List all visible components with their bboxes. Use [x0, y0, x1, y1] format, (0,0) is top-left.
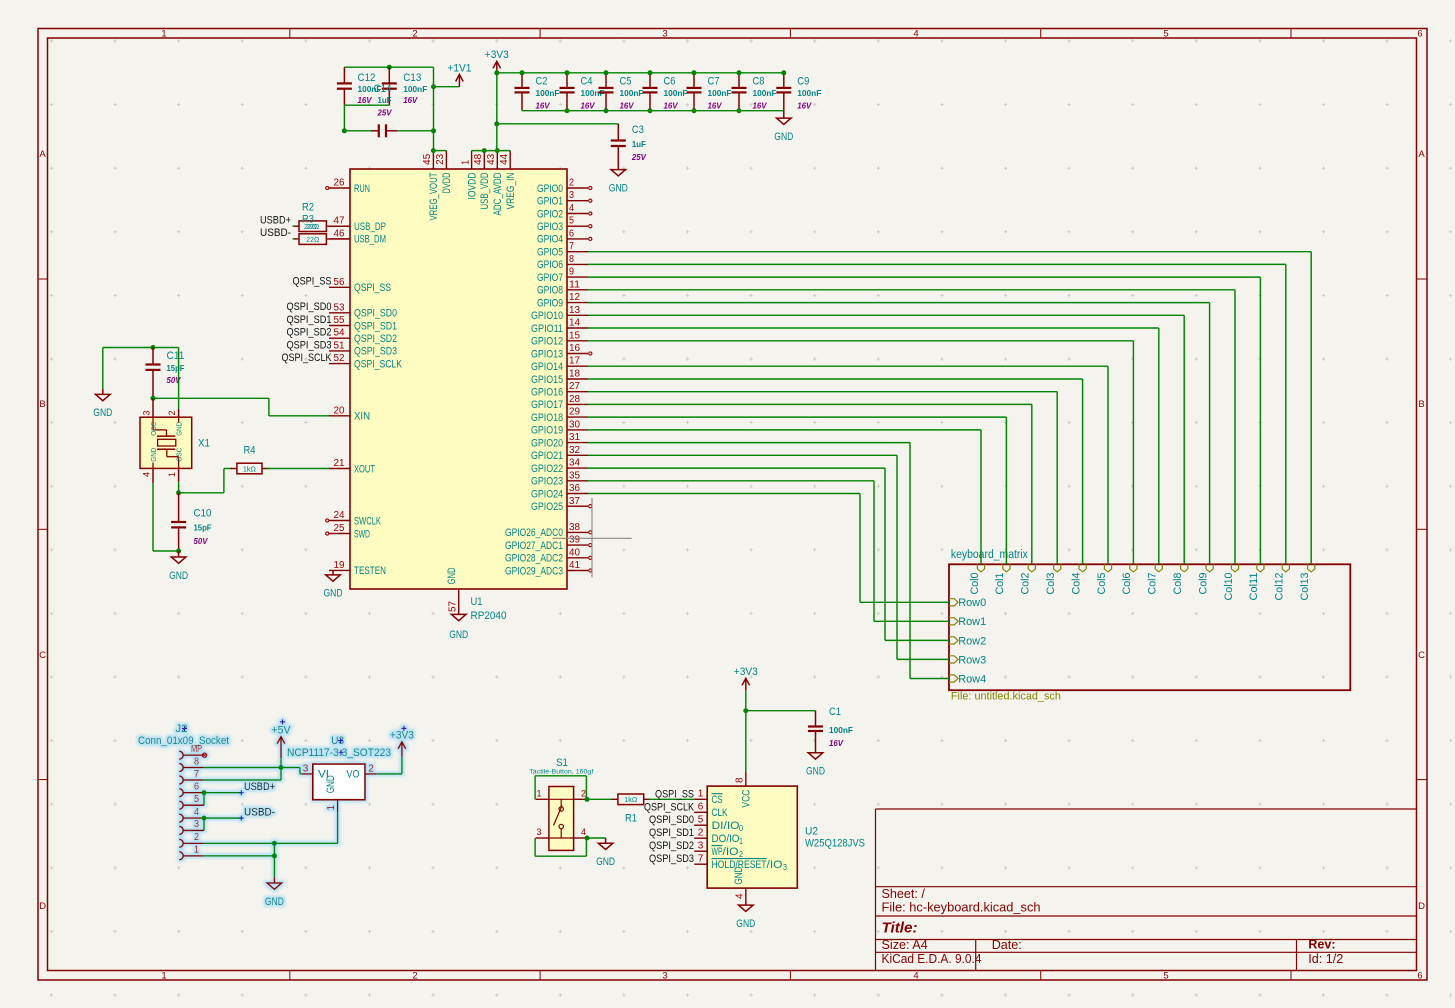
svg-text:GPIO21: GPIO21 — [531, 450, 563, 462]
svg-text:28: 28 — [569, 394, 580, 405]
svg-text:50V: 50V — [167, 375, 182, 385]
svg-text:16: 16 — [569, 343, 580, 354]
svg-text:GPIO24: GPIO24 — [531, 488, 563, 500]
svg-text:1: 1 — [167, 472, 177, 477]
svg-text:100nF: 100nF — [403, 84, 427, 94]
svg-text:Row1: Row1 — [958, 616, 986, 628]
svg-text:GND: GND — [806, 766, 825, 778]
svg-text:USBD+: USBD+ — [260, 215, 291, 227]
svg-text:3: 3 — [698, 840, 704, 851]
svg-text:C3: C3 — [632, 124, 644, 136]
svg-text:GPIO15: GPIO15 — [531, 374, 563, 386]
svg-text:USB_DM: USB_DM — [354, 234, 386, 246]
svg-text:IOVDD: IOVDD — [466, 173, 478, 200]
svg-text:34: 34 — [569, 458, 580, 469]
svg-text:32: 32 — [569, 445, 580, 456]
svg-text:DO/IO: DO/IO — [712, 833, 740, 845]
svg-text:GPIO5: GPIO5 — [537, 247, 563, 259]
svg-text:3: 3 — [662, 28, 667, 39]
svg-text:7: 7 — [698, 853, 704, 864]
svg-text:57: 57 — [448, 601, 459, 612]
svg-text:GND: GND — [736, 918, 755, 930]
svg-text:41: 41 — [569, 560, 580, 571]
svg-text:5: 5 — [698, 814, 704, 825]
svg-text:D: D — [1418, 901, 1425, 912]
svg-text:100nF: 100nF — [664, 88, 688, 98]
svg-text:GND: GND — [175, 422, 184, 436]
svg-text:GPIO23: GPIO23 — [531, 476, 563, 488]
svg-text:5: 5 — [1163, 28, 1168, 39]
svg-text:USB_DP: USB_DP — [354, 221, 386, 233]
svg-text:Date:: Date: — [992, 938, 1022, 952]
svg-text:QSPI_SD1: QSPI_SD1 — [649, 827, 694, 839]
svg-text:Row4: Row4 — [958, 673, 986, 685]
svg-text:A: A — [1418, 149, 1425, 160]
svg-text:4: 4 — [581, 827, 586, 837]
svg-text:C7: C7 — [708, 76, 720, 88]
svg-text:+1V1: +1V1 — [447, 62, 471, 74]
svg-text:GND: GND — [149, 448, 158, 462]
svg-text:R4: R4 — [244, 445, 256, 457]
svg-text:18: 18 — [569, 369, 580, 380]
svg-text:4: 4 — [735, 893, 746, 899]
svg-text:Tactile-Button, 160gf: Tactile-Button, 160gf — [529, 769, 593, 776]
svg-text:GPIO26_ADC0: GPIO26_ADC0 — [505, 527, 563, 539]
svg-text:USB_VDD: USB_VDD — [479, 172, 491, 209]
svg-text:DI/IO: DI/IO — [712, 820, 740, 832]
svg-text:5: 5 — [569, 216, 574, 227]
svg-text:GPIO27_ADC1: GPIO27_ADC1 — [505, 540, 563, 552]
svg-text:Row3: Row3 — [958, 654, 986, 666]
svg-text:Title:: Title: — [882, 920, 918, 937]
svg-text:Col4: Col4 — [1070, 573, 1082, 595]
svg-text:/IO: /IO — [767, 859, 783, 871]
svg-text:C5: C5 — [620, 76, 632, 88]
svg-text:100nF: 100nF — [753, 88, 777, 98]
svg-text:100nF: 100nF — [708, 88, 732, 98]
svg-text:6: 6 — [1417, 970, 1422, 981]
svg-text:4: 4 — [913, 970, 918, 981]
svg-text:Col9: Col9 — [1197, 573, 1209, 595]
svg-text:KiCad E.D.A. 9.0.4: KiCad E.D.A. 9.0.4 — [882, 952, 982, 966]
svg-text:QSPI_SCLK: QSPI_SCLK — [282, 352, 332, 364]
svg-text:2: 2 — [167, 410, 177, 415]
svg-text:Col2: Col2 — [1020, 573, 1032, 595]
svg-text:100nF: 100nF — [829, 725, 853, 735]
svg-text:16V: 16V — [403, 95, 418, 105]
svg-text:100nF: 100nF — [797, 88, 821, 98]
svg-text:QSPI_SD1: QSPI_SD1 — [354, 320, 397, 332]
svg-text:GPIO16: GPIO16 — [531, 387, 563, 399]
svg-text:51: 51 — [334, 340, 345, 351]
svg-text:B: B — [39, 399, 45, 410]
svg-text:USBD+: USBD+ — [244, 781, 275, 793]
svg-text:WP: WP — [712, 846, 723, 858]
svg-text:QSPI_SD3: QSPI_SD3 — [287, 339, 332, 351]
svg-text:1: 1 — [194, 845, 199, 856]
svg-text:XIN: XIN — [354, 411, 370, 423]
svg-text:ADC_AVDD: ADC_AVDD — [492, 172, 504, 215]
svg-text:GND: GND — [609, 182, 628, 194]
svg-text:GPIO7: GPIO7 — [537, 272, 563, 284]
svg-text:+5V: +5V — [272, 725, 292, 737]
svg-text:QSPI_SD1: QSPI_SD1 — [287, 314, 332, 326]
svg-text:QSPI_SD2: QSPI_SD2 — [649, 840, 694, 852]
svg-text:S1: S1 — [556, 757, 568, 769]
svg-text:5: 5 — [194, 794, 199, 805]
svg-text:3: 3 — [536, 827, 541, 837]
svg-text:7: 7 — [569, 241, 574, 252]
svg-text:QSPI_SCLK: QSPI_SCLK — [354, 358, 402, 370]
svg-text:QSPI_SS: QSPI_SS — [354, 282, 391, 294]
svg-text:Col1: Col1 — [994, 572, 1006, 594]
svg-text:C2: C2 — [536, 76, 548, 88]
svg-text:2: 2 — [412, 970, 417, 981]
svg-text:GPIO13: GPIO13 — [531, 348, 563, 360]
svg-text:GPIO4: GPIO4 — [537, 234, 563, 246]
svg-text:C11: C11 — [167, 350, 185, 362]
svg-text:14: 14 — [569, 318, 580, 329]
svg-text:GPIO6: GPIO6 — [537, 259, 563, 271]
svg-text:GPIO22: GPIO22 — [531, 463, 563, 475]
svg-text:17: 17 — [569, 356, 580, 367]
svg-text:GPIO10: GPIO10 — [531, 310, 563, 322]
svg-text:XOUT: XOUT — [354, 463, 375, 475]
svg-text:46: 46 — [334, 228, 345, 239]
svg-text:C1: C1 — [829, 706, 841, 718]
svg-text:keyboard_matrix: keyboard_matrix — [951, 549, 1028, 561]
svg-text:GPIO1: GPIO1 — [537, 196, 563, 208]
svg-text:54: 54 — [334, 328, 345, 339]
svg-text:3: 3 — [142, 410, 152, 415]
svg-text:GPIO28_ADC2: GPIO28_ADC2 — [505, 553, 563, 565]
svg-text:2: 2 — [569, 178, 574, 189]
svg-text:Col8: Col8 — [1172, 573, 1184, 595]
svg-text:16V: 16V — [708, 101, 723, 111]
svg-text:OSC: OSC — [149, 422, 158, 436]
svg-text:3: 3 — [303, 763, 309, 774]
svg-text:A: A — [39, 149, 46, 160]
svg-text:SWCLK: SWCLK — [354, 515, 381, 527]
svg-text:Col6: Col6 — [1121, 573, 1133, 595]
svg-text:GPIO12: GPIO12 — [531, 336, 563, 348]
svg-text:C10: C10 — [194, 508, 212, 520]
svg-text:27: 27 — [569, 381, 580, 392]
svg-text:GPIO25: GPIO25 — [531, 501, 563, 513]
svg-text:/IO: /IO — [723, 846, 739, 858]
svg-text:GPIO19: GPIO19 — [531, 425, 563, 437]
svg-text:1uF: 1uF — [632, 139, 646, 149]
svg-text:QSPI_SD2: QSPI_SD2 — [354, 333, 397, 345]
svg-text:11: 11 — [569, 279, 580, 290]
svg-text:C13: C13 — [403, 72, 421, 84]
svg-text:1: 1 — [460, 160, 471, 165]
svg-text:3: 3 — [194, 819, 199, 830]
svg-text:3: 3 — [569, 190, 574, 201]
svg-text:4: 4 — [913, 28, 918, 39]
svg-text:8: 8 — [735, 777, 746, 783]
svg-text:R3: R3 — [302, 214, 314, 226]
svg-text:1: 1 — [326, 805, 337, 811]
svg-text:2: 2 — [739, 850, 743, 859]
svg-text:GPIO9: GPIO9 — [537, 297, 563, 309]
svg-text:5: 5 — [1163, 970, 1168, 981]
svg-text:CS: CS — [712, 794, 723, 806]
svg-text:53: 53 — [334, 302, 345, 313]
svg-text:C6: C6 — [664, 76, 676, 88]
svg-text:C: C — [1418, 650, 1425, 661]
svg-text:Size: A4: Size: A4 — [882, 938, 928, 952]
svg-text:U2: U2 — [805, 826, 818, 838]
svg-text:+3V3: +3V3 — [485, 49, 509, 61]
svg-text:1: 1 — [161, 28, 166, 39]
svg-text:4: 4 — [194, 807, 199, 818]
svg-text:100nF: 100nF — [620, 88, 644, 98]
svg-text:USBD-: USBD- — [244, 807, 275, 819]
svg-text:16V: 16V — [536, 101, 551, 111]
svg-text:22Ω: 22Ω — [306, 235, 319, 244]
svg-text:C8: C8 — [753, 76, 765, 88]
svg-text:Row2: Row2 — [958, 635, 986, 647]
svg-text:GPIO20: GPIO20 — [531, 437, 563, 449]
svg-text:16V: 16V — [581, 101, 596, 111]
svg-text:GND: GND — [265, 896, 284, 908]
svg-text:Sheet: /: Sheet: / — [882, 887, 926, 901]
svg-text:47: 47 — [334, 216, 345, 227]
svg-text:GPIO11: GPIO11 — [531, 323, 563, 335]
svg-text:QSPI_SS: QSPI_SS — [655, 788, 694, 800]
svg-text:16V: 16V — [664, 101, 679, 111]
svg-text:OSC: OSC — [175, 448, 184, 462]
svg-text:CLK: CLK — [712, 807, 728, 819]
svg-text:Id: 1/2: Id: 1/2 — [1308, 952, 1343, 966]
svg-text:1: 1 — [161, 970, 166, 981]
svg-text:1uF: 1uF — [378, 95, 392, 105]
svg-text:RUN: RUN — [354, 183, 370, 195]
svg-text:Col13: Col13 — [1299, 573, 1311, 601]
svg-text:GND: GND — [449, 629, 468, 641]
svg-text:QSPI_SD2: QSPI_SD2 — [287, 327, 332, 339]
svg-text:Col10: Col10 — [1223, 573, 1235, 601]
svg-text:4: 4 — [142, 472, 152, 477]
svg-text:GPIO29_ADC3: GPIO29_ADC3 — [505, 565, 563, 577]
svg-text:C9: C9 — [797, 76, 809, 88]
svg-text:QSPI_SD3: QSPI_SD3 — [354, 346, 397, 358]
svg-text:TESTEN: TESTEN — [354, 565, 386, 577]
svg-text:Col5: Col5 — [1096, 573, 1108, 595]
svg-text:Col3: Col3 — [1045, 573, 1057, 595]
svg-text:W25Q128JVS: W25Q128JVS — [805, 838, 865, 850]
svg-text:100nF: 100nF — [536, 88, 560, 98]
svg-text:B: B — [1418, 399, 1424, 410]
svg-text:GND: GND — [324, 588, 343, 600]
svg-text:GND: GND — [774, 131, 793, 143]
svg-text:16V: 16V — [797, 101, 812, 111]
svg-text:26: 26 — [334, 178, 345, 189]
svg-text:QSPI_SS: QSPI_SS — [293, 276, 332, 288]
svg-text:13: 13 — [569, 305, 580, 316]
svg-text:15: 15 — [569, 330, 580, 341]
svg-text:15pF: 15pF — [194, 523, 212, 533]
svg-text:16V: 16V — [620, 101, 635, 111]
svg-text:36: 36 — [569, 483, 580, 494]
svg-text:39: 39 — [569, 535, 580, 546]
svg-text:File: untitled.kicad_sch: File: untitled.kicad_sch — [951, 690, 1061, 702]
svg-text:23: 23 — [435, 153, 446, 164]
svg-text:DVDD: DVDD — [441, 173, 453, 194]
svg-text:15pF: 15pF — [167, 363, 185, 373]
svg-text:6: 6 — [1417, 28, 1422, 39]
svg-text:QSPI_SD0: QSPI_SD0 — [649, 814, 694, 826]
svg-text:Col11: Col11 — [1248, 573, 1260, 601]
svg-text:9: 9 — [569, 267, 574, 278]
svg-text:6: 6 — [698, 802, 704, 813]
svg-text:VREG_VOUT: VREG_VOUT — [428, 172, 440, 220]
svg-text:3: 3 — [662, 970, 667, 981]
svg-text:+3V3: +3V3 — [734, 666, 758, 678]
svg-text:1: 1 — [739, 837, 743, 846]
svg-text:GPIO8: GPIO8 — [537, 285, 563, 297]
svg-text:12: 12 — [569, 292, 580, 303]
svg-text:56: 56 — [334, 277, 345, 288]
svg-text:2: 2 — [698, 827, 704, 838]
svg-text:C: C — [39, 650, 46, 661]
svg-text:6: 6 — [194, 782, 199, 793]
svg-text:GND: GND — [446, 568, 458, 585]
svg-text:C12: C12 — [358, 72, 376, 84]
svg-text:Row0: Row0 — [958, 597, 986, 609]
svg-text:MP: MP — [191, 744, 202, 755]
svg-text:RP2040: RP2040 — [471, 610, 507, 622]
svg-text:QSPI_SCLK: QSPI_SCLK — [644, 801, 694, 813]
svg-text:48: 48 — [473, 153, 484, 164]
svg-text:25V: 25V — [631, 152, 647, 162]
svg-text:QSPI_SD0: QSPI_SD0 — [287, 301, 332, 313]
svg-text:35: 35 — [569, 470, 580, 481]
svg-text:R1: R1 — [625, 813, 637, 825]
svg-text:0: 0 — [739, 824, 743, 833]
svg-text:19: 19 — [334, 560, 345, 571]
svg-text:30: 30 — [569, 419, 580, 430]
svg-text:GND: GND — [733, 867, 745, 885]
svg-text:USBD-: USBD- — [260, 227, 291, 239]
svg-text:2: 2 — [581, 788, 586, 798]
svg-text:C4: C4 — [581, 76, 593, 88]
svg-text:2: 2 — [368, 763, 374, 774]
svg-text:6: 6 — [569, 228, 574, 239]
svg-text:7: 7 — [194, 769, 199, 780]
svg-text:50V: 50V — [194, 536, 209, 546]
svg-text:NCP1117-3.3_SOT223: NCP1117-3.3_SOT223 — [287, 747, 391, 759]
svg-text:52: 52 — [334, 353, 345, 364]
svg-text:File: hc-keyboard.kicad_sch: File: hc-keyboard.kicad_sch — [882, 901, 1041, 915]
svg-text:2: 2 — [194, 832, 199, 843]
svg-text:U1: U1 — [471, 596, 483, 608]
svg-text:21: 21 — [334, 458, 345, 469]
svg-text:16V: 16V — [753, 101, 768, 111]
svg-text:VO: VO — [347, 769, 360, 781]
svg-text:24: 24 — [334, 510, 345, 521]
svg-text:GND: GND — [596, 856, 615, 868]
svg-text:31: 31 — [569, 432, 580, 443]
svg-text:QSPI_SD0: QSPI_SD0 — [354, 308, 397, 320]
svg-text:1: 1 — [698, 789, 704, 800]
svg-text:D: D — [39, 901, 46, 912]
svg-text:16V: 16V — [829, 738, 844, 748]
svg-text:Conn_01x09_Socket: Conn_01x09_Socket — [138, 735, 230, 747]
svg-text:45: 45 — [422, 153, 433, 164]
svg-text:4: 4 — [569, 203, 574, 214]
svg-text:Col7: Col7 — [1147, 573, 1159, 595]
svg-text:QSPI_SD3: QSPI_SD3 — [649, 853, 694, 865]
svg-text:GPIO14: GPIO14 — [531, 361, 563, 373]
svg-text:X1: X1 — [198, 438, 210, 450]
svg-text:43: 43 — [486, 153, 497, 164]
svg-text:1kΩ: 1kΩ — [243, 464, 256, 473]
svg-text:GND: GND — [93, 407, 112, 419]
svg-text:C14: C14 — [374, 83, 392, 95]
svg-text:25V: 25V — [377, 108, 393, 118]
svg-text:Col12: Col12 — [1274, 573, 1286, 601]
svg-text:GPIO3: GPIO3 — [537, 221, 563, 233]
svg-text:GPIO17: GPIO17 — [531, 399, 563, 411]
svg-text:GND: GND — [325, 775, 337, 793]
svg-text:37: 37 — [569, 496, 580, 507]
svg-text:VREG_IN: VREG_IN — [505, 173, 517, 210]
svg-text:8: 8 — [194, 756, 199, 767]
svg-text:GPIO2: GPIO2 — [537, 208, 563, 220]
svg-text:R2: R2 — [302, 202, 314, 214]
svg-text:GPIO0: GPIO0 — [537, 183, 563, 195]
svg-text:+3V3: +3V3 — [390, 730, 414, 742]
svg-text:1: 1 — [536, 788, 541, 798]
svg-text:44: 44 — [499, 153, 510, 164]
svg-text:Col0: Col0 — [969, 573, 981, 595]
svg-text:SWD: SWD — [354, 528, 370, 540]
svg-text:55: 55 — [334, 315, 345, 326]
svg-text:25: 25 — [334, 523, 345, 534]
svg-text:38: 38 — [569, 522, 580, 533]
svg-text:GND: GND — [169, 570, 188, 582]
svg-text:VCC: VCC — [741, 790, 753, 808]
svg-text:GPIO18: GPIO18 — [531, 412, 563, 424]
svg-text:3: 3 — [783, 863, 787, 872]
svg-text:29: 29 — [569, 407, 580, 418]
svg-text:Rev:: Rev: — [1308, 937, 1335, 951]
svg-text:8: 8 — [569, 254, 574, 265]
svg-text:1kΩ: 1kΩ — [624, 795, 637, 804]
svg-text:40: 40 — [569, 547, 580, 558]
svg-text:2: 2 — [412, 28, 417, 39]
svg-text:20: 20 — [334, 405, 345, 416]
svg-text:16V: 16V — [358, 95, 373, 105]
